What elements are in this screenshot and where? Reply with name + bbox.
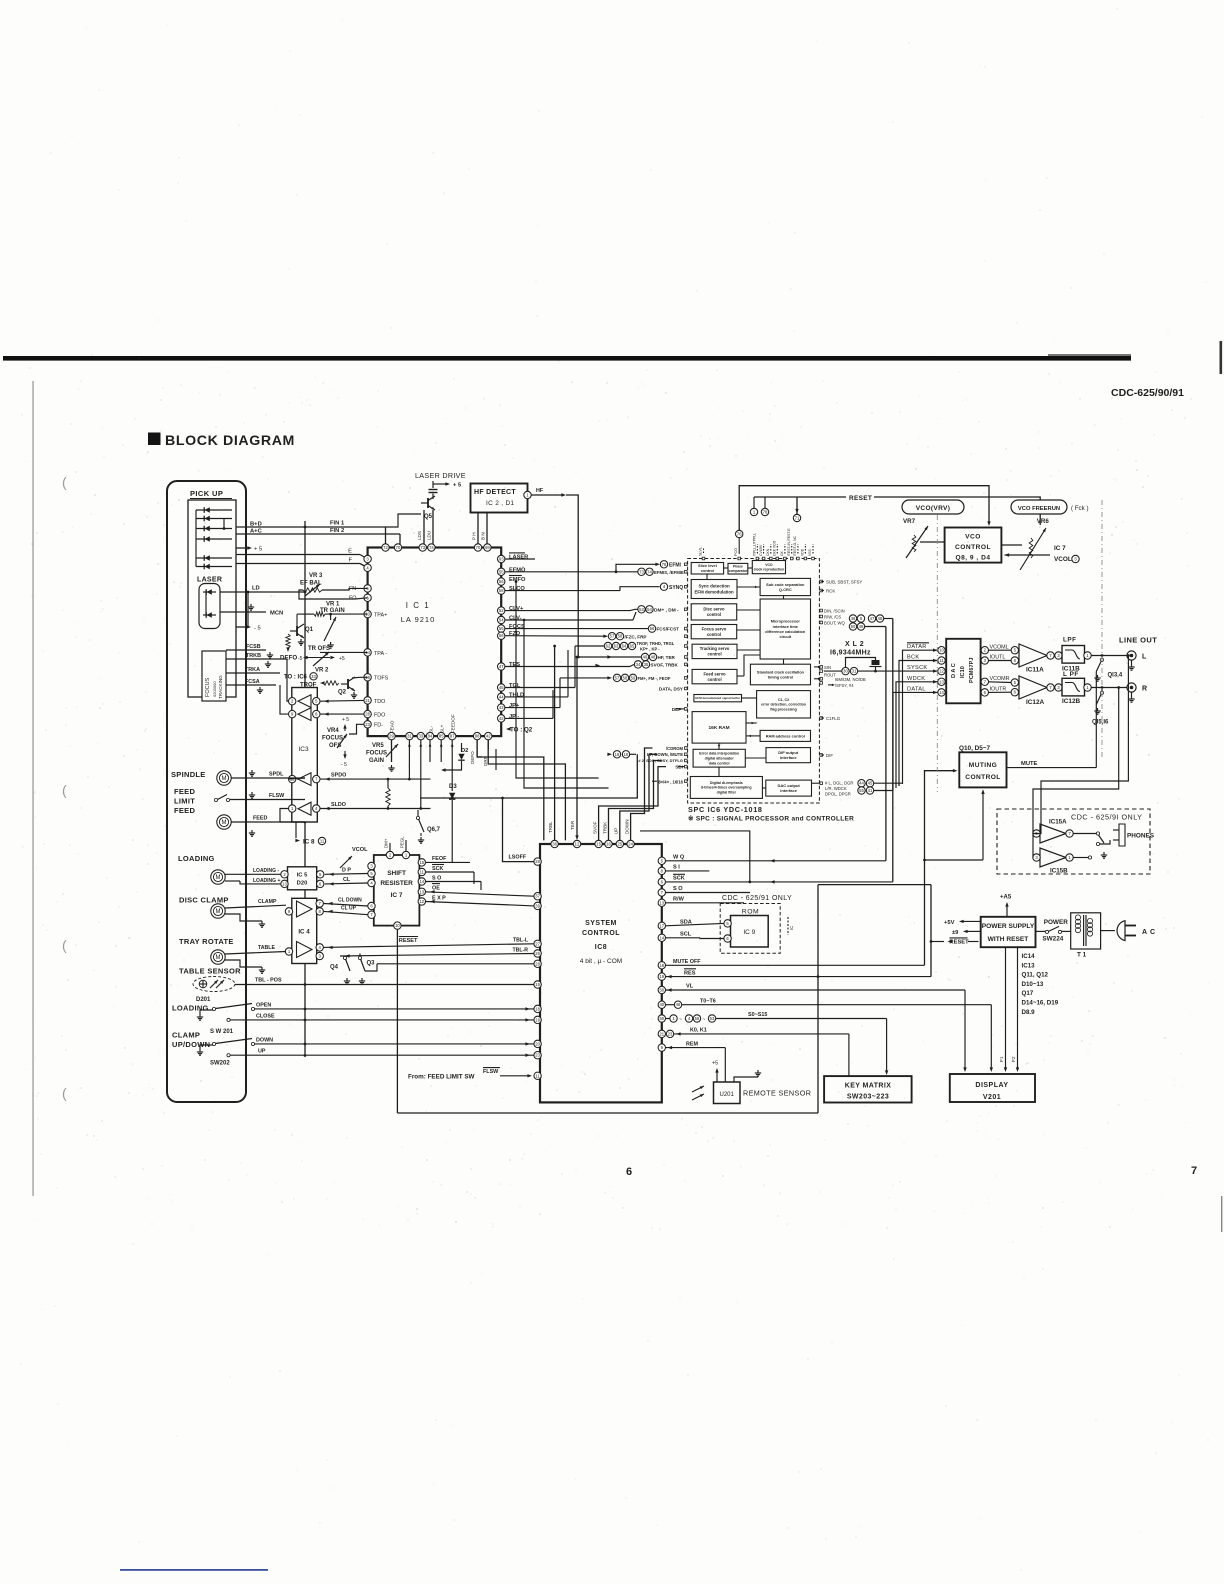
vertical buses right xyxy=(885,627,887,861)
svg-text:D A C: D A C xyxy=(951,663,957,678)
wire HF to SPC xyxy=(531,494,562,496)
SPC sync detection EFM demodulation xyxy=(691,580,737,599)
photodiode array xyxy=(196,509,232,511)
svg-text:DEF: DEF xyxy=(672,707,681,712)
wire LDS xyxy=(423,510,425,544)
phones feed from R line xyxy=(1117,686,1120,689)
svg-text:S O: S O xyxy=(432,875,441,881)
wire ORF drop xyxy=(495,749,497,770)
wire LD xyxy=(220,591,305,593)
SPC standard clock oscillation xyxy=(750,664,810,685)
svg-text:DIF: DIF xyxy=(826,753,833,758)
svg-text:6: 6 xyxy=(626,1166,632,1178)
svg-text:±9: ±9 xyxy=(952,930,959,936)
svg-text:- 5: - 5 xyxy=(254,626,261,632)
svg-text:SPDO: SPDO xyxy=(331,773,346,779)
wire SCK loop xyxy=(640,831,750,882)
svg-text:VR 3: VR 3 xyxy=(309,573,323,579)
svg-text:11: 11 xyxy=(535,1073,540,1078)
svg-text:LOADING -: LOADING - xyxy=(253,868,279,874)
svg-text:I6M/I3M, NO/DB: I6M/I3M, NO/DB xyxy=(835,677,866,682)
VR2 pot xyxy=(313,652,329,666)
svg-text:34: 34 xyxy=(636,662,641,667)
svg-text:SCK: SCK xyxy=(432,866,443,872)
svg-text:IC 7: IC 7 xyxy=(1054,545,1066,552)
SPC sub code separation xyxy=(760,578,810,595)
VCO VRV stadium xyxy=(902,500,964,514)
svg-text:CLAMP: CLAMP xyxy=(172,1031,200,1040)
svg-text:IC15B: IC15B xyxy=(1050,868,1068,875)
svg-text:30: 30 xyxy=(843,669,848,674)
svg-text:digital filter: digital filter xyxy=(717,791,737,795)
svg-text:S0~S15: S0~S15 xyxy=(748,1012,767,1018)
SPC right serial pins xyxy=(820,666,823,669)
svg-text:Phase: Phase xyxy=(733,565,743,569)
svg-text:- 5: - 5 xyxy=(341,762,347,768)
SPC digital de-emphasis filter xyxy=(690,777,762,799)
svg-text:76: 76 xyxy=(737,532,742,537)
svg-text:CL DOWN: CL DOWN xyxy=(338,897,362,903)
IC8 bottom bus xyxy=(397,1112,818,1114)
IC1 bottom pins xyxy=(388,732,395,739)
ROM dashed box xyxy=(720,904,780,954)
svg-text:FCSB: FCSB xyxy=(246,644,261,650)
phones lower contact xyxy=(1088,856,1091,859)
svg-text:+A5: +A5 xyxy=(1000,895,1012,901)
label C1FLG xyxy=(820,717,823,720)
IC5 body xyxy=(288,867,317,890)
svg-text:MCN: MCN xyxy=(270,611,283,617)
disc clamp motor xyxy=(211,904,225,918)
svg-text:TRBK: TRBK xyxy=(602,821,607,834)
LPF R block xyxy=(1054,687,1056,689)
svg-text:84: 84 xyxy=(428,734,433,739)
svg-text:IOUTL: IOUTL xyxy=(990,655,1006,661)
svg-text:IC 7: IC 7 xyxy=(391,892,403,899)
svg-text:GAIN: GAIN xyxy=(369,758,384,764)
svg-text:20: 20 xyxy=(535,1041,540,1046)
svg-text:15: 15 xyxy=(419,860,424,865)
wire A+C xyxy=(236,533,400,535)
IC1 LA9210 body xyxy=(368,548,502,737)
svg-text:/TEST-O, NC: /TEST-O, NC xyxy=(793,535,797,556)
svg-text:FOCUS: FOCUS xyxy=(366,751,387,757)
svg-text:M: M xyxy=(216,955,221,961)
reset network top xyxy=(818,884,931,886)
svg-text:28: 28 xyxy=(365,712,370,717)
svg-text:SVOF: SVOF xyxy=(592,821,597,834)
svg-text:12: 12 xyxy=(419,899,424,904)
svg-text:POWER SUPPLY: POWER SUPPLY xyxy=(982,923,1035,930)
svg-text:P H: P H xyxy=(472,532,477,540)
wire TBL-R xyxy=(340,954,534,957)
svg-text:13: 13 xyxy=(939,679,944,684)
svg-text:17: 17 xyxy=(659,923,664,928)
SPC tracking servo control xyxy=(692,644,737,658)
svg-text:PHONES: PHONES xyxy=(1127,833,1155,840)
op-amp IC12A xyxy=(1011,679,1018,686)
wire PH xyxy=(477,513,479,544)
svg-text:W Q: W Q xyxy=(673,855,685,861)
op-amp IC11A xyxy=(1011,647,1018,654)
svg-text:(: ( xyxy=(62,937,67,953)
svg-text:From: FEED LIMIT SW: From: FEED LIMIT SW xyxy=(408,1074,475,1081)
wire TBL-L xyxy=(322,944,534,948)
svg-text:49: 49 xyxy=(643,655,648,660)
svg-text:28: 28 xyxy=(535,961,540,966)
SPC RAM address control xyxy=(760,730,810,741)
svg-text:63: 63 xyxy=(499,557,504,562)
svg-text:21: 21 xyxy=(659,1031,664,1036)
svg-text:SHIFT: SHIFT xyxy=(387,870,406,877)
svg-text:Tracking servo: Tracking servo xyxy=(700,646,730,651)
svg-text:RESISTER: RESISTER xyxy=(380,880,413,887)
svg-text:ROM: ROM xyxy=(742,909,759,916)
svg-text:44: 44 xyxy=(499,694,504,699)
svg-text:flag processing: flag processing xyxy=(770,707,797,711)
svg-text:12: 12 xyxy=(575,842,580,847)
wire -5 xyxy=(236,626,247,628)
svg-text:31: 31 xyxy=(852,669,857,674)
svg-text:LSOFF: LSOFF xyxy=(509,855,527,861)
wire TROF TRHD TRGL xyxy=(575,645,604,647)
svg-text:TR GAIN: TR GAIN xyxy=(320,608,345,614)
svg-text:TR OFS: TR OFS xyxy=(308,646,330,652)
svg-text:THLD: THLD xyxy=(509,692,524,698)
wire B+D up to Q5 base xyxy=(386,514,422,527)
svg-text:TES: TES xyxy=(509,662,520,668)
svg-text:L/R, WDCK: L/R, WDCK xyxy=(825,786,847,791)
wire E xyxy=(236,554,360,556)
wire bend pin88 down xyxy=(477,740,544,841)
svg-text:CLAMP: CLAMP xyxy=(258,899,277,905)
svg-text:VL: VL xyxy=(686,984,694,990)
svg-text:27: 27 xyxy=(535,941,540,946)
bottom pin risers xyxy=(408,740,410,762)
svg-text:70: 70 xyxy=(396,545,401,550)
wire SCL xyxy=(665,937,700,939)
IC1 top pins xyxy=(382,544,389,551)
svg-text:21: 21 xyxy=(365,698,370,703)
svg-text:(: ( xyxy=(62,782,67,798)
svg-text:WITH RESET: WITH RESET xyxy=(988,936,1029,943)
svg-text:SIN: SIN xyxy=(824,665,831,670)
SPC focus servo control xyxy=(691,625,737,639)
phones feed from L line xyxy=(1127,654,1130,657)
laser drive +5 xyxy=(445,482,450,485)
svg-text:FIN 2: FIN 2 xyxy=(330,528,344,534)
focus tracking coil box xyxy=(202,651,226,701)
svg-text:DIN, /SCIN: DIN, /SCIN xyxy=(824,609,845,614)
svg-text:33: 33 xyxy=(311,674,316,679)
R jack xyxy=(1127,683,1136,692)
IC3 buffer d xyxy=(298,802,311,815)
svg-text:13: 13 xyxy=(419,889,424,894)
svg-text:VR4: VR4 xyxy=(327,728,339,734)
svg-text:VCOL: VCOL xyxy=(352,847,368,853)
svg-text:46: 46 xyxy=(851,616,856,621)
svg-text:13: 13 xyxy=(659,900,664,905)
AC plug xyxy=(1117,921,1125,941)
wire DM+ PEGL stubs xyxy=(389,832,391,843)
svg-text:LASER DRIVE: LASER DRIVE xyxy=(415,471,466,480)
svg-text:SYNQ: SYNQ xyxy=(669,585,683,591)
SPC phase comparator xyxy=(728,563,748,574)
wire JP+ xyxy=(505,707,560,709)
svg-text:L PF: L PF xyxy=(1063,671,1079,678)
VCO FREERUN stadium xyxy=(1011,500,1067,514)
wire +5V out xyxy=(962,920,981,922)
svg-text:24: 24 xyxy=(628,842,633,847)
wire muting bottom feed xyxy=(982,790,984,860)
svg-text:VSS: VSS xyxy=(808,548,812,556)
svg-text:DM+: DM+ xyxy=(384,838,389,848)
svg-text:Digital di-emphasis: Digital di-emphasis xyxy=(710,781,743,785)
HF detect block IC2 D1 xyxy=(471,484,528,513)
svg-text:BOUT, WQ: BOUT, WQ xyxy=(824,621,845,626)
svg-text:16: 16 xyxy=(624,752,629,757)
svg-text:59: 59 xyxy=(631,675,636,680)
wire TRKB xyxy=(226,658,287,660)
svg-text:BCK: BCK xyxy=(907,655,919,661)
SPC C1 C2 error detection xyxy=(757,691,811,718)
switch Q6 7 xyxy=(416,816,419,819)
svg-text:SPDL: SPDL xyxy=(269,772,284,778)
svg-text:FEED: FEED xyxy=(174,806,195,815)
svg-text:53: 53 xyxy=(639,607,644,612)
wire SCK out xyxy=(425,871,474,873)
svg-text:( Fck ): ( Fck ) xyxy=(1071,505,1089,512)
svg-text:EFM demodulated signal buffer: EFM demodulated signal buffer xyxy=(695,696,741,700)
svg-text:TO : Q2: TO : Q2 xyxy=(510,727,533,734)
svg-text:SYSCK: SYSCK xyxy=(907,665,927,671)
svg-text:SL+: SL+ xyxy=(440,724,445,733)
wire JP- xyxy=(505,717,553,719)
IC7 top pins xyxy=(386,851,393,858)
svg-text:TBL-L: TBL-L xyxy=(513,938,529,944)
wire LASER row stub xyxy=(505,558,535,560)
svg-text:Q3: Q3 xyxy=(367,961,376,967)
svg-text:UP: UP xyxy=(258,1049,266,1055)
svg-text:L: L xyxy=(1142,654,1147,661)
wire FDO row xyxy=(320,713,364,715)
wire RESET net down xyxy=(396,929,398,1113)
svg-text:RESET: RESET xyxy=(849,495,872,502)
IC8 right pins xyxy=(658,857,665,864)
svg-text:FCS/FCST: FCS/FCST xyxy=(657,627,680,632)
IC3 body xyxy=(292,688,318,823)
svg-text:data control: data control xyxy=(709,761,730,765)
svg-text:TGL: TGL xyxy=(509,683,521,689)
svg-text:IC12A: IC12A xyxy=(1026,699,1044,706)
svg-text:FEOF: FEOF xyxy=(432,856,447,862)
heading BLOCK DIAGRAM xyxy=(148,433,161,446)
key matrix block xyxy=(824,1076,912,1102)
left bus vertical xyxy=(304,521,306,1056)
svg-text:19: 19 xyxy=(535,1017,540,1022)
pickup photodiode array box xyxy=(188,500,236,697)
svg-text:control: control xyxy=(707,652,721,657)
svg-text:CONTROL: CONTROL xyxy=(965,774,1000,781)
svg-text:D10~13: D10~13 xyxy=(1022,981,1044,988)
wire SO out xyxy=(425,881,481,883)
svg-text:IC13: IC13 xyxy=(1022,962,1036,969)
right margin tick bottom xyxy=(1221,1196,1222,1232)
svg-text:36: 36 xyxy=(552,842,557,847)
svg-text:FD-: FD- xyxy=(374,723,383,729)
svg-text:VR 2: VR 2 xyxy=(315,668,329,674)
svg-text:50: 50 xyxy=(851,624,856,629)
SPC feed servo control xyxy=(692,669,737,683)
svg-text:+5: +5 xyxy=(712,1061,718,1067)
wire OE xyxy=(425,892,534,896)
wire FCS FCST xyxy=(505,628,648,630)
op-amp IC15B xyxy=(1040,848,1066,867)
wire UP DOWN MUTE feed xyxy=(420,754,637,798)
wire RES xyxy=(665,976,931,978)
svg-text:23: 23 xyxy=(365,722,370,727)
svg-text:55: 55 xyxy=(499,569,504,574)
IC1 right pins xyxy=(498,555,505,562)
VCO control block xyxy=(945,528,1002,563)
wire B+D xyxy=(236,526,386,528)
svg-text:+ 5: + 5 xyxy=(342,717,349,723)
svg-text:47: 47 xyxy=(870,616,875,621)
wire CL xyxy=(325,882,368,885)
svg-text:58: 58 xyxy=(499,588,504,593)
svg-text:X L 2: X L 2 xyxy=(845,641,864,648)
svg-text:Standard clock oscillation: Standard clock oscillation xyxy=(757,670,805,674)
svg-text:11: 11 xyxy=(939,658,944,663)
svg-text:LASER: LASER xyxy=(509,555,528,561)
IC9 body xyxy=(731,916,769,948)
wire SDA xyxy=(665,923,724,925)
wire EXP xyxy=(425,902,534,906)
SPC microprocessor interface block xyxy=(760,599,810,659)
svg-text:33: 33 xyxy=(418,734,423,739)
svg-text:CONTROL: CONTROL xyxy=(955,544,991,551)
svg-text:LINE OUT: LINE OUT xyxy=(1119,636,1157,645)
svg-text:DATAL: DATAL xyxy=(907,686,926,692)
svg-text:69: 69 xyxy=(485,545,490,550)
svg-text:57: 57 xyxy=(615,675,620,680)
svg-text:error detection, correction: error detection, correction xyxy=(761,703,806,707)
svg-text:B+D: B+D xyxy=(250,522,262,528)
wire CL DOWN xyxy=(324,904,368,907)
transistor Q2 xyxy=(347,679,349,689)
svg-text:+ 5: + 5 xyxy=(453,483,462,489)
wire TRKB to IC3 in xyxy=(287,659,289,701)
svg-text:78: 78 xyxy=(662,562,667,567)
svg-text:CLV-: CLV- xyxy=(509,616,522,622)
svg-text:CVLRV: CVLRV xyxy=(759,544,763,556)
svg-text:IC 8: IC 8 xyxy=(303,839,315,846)
svg-text:55: 55 xyxy=(499,626,504,631)
svg-text:TRBL: TRBL xyxy=(548,821,553,833)
svg-text:41: 41 xyxy=(868,788,873,793)
svg-text:31: 31 xyxy=(407,734,412,739)
DAC data wires xyxy=(903,650,938,784)
svg-text:V201: V201 xyxy=(983,1094,1001,1101)
page top rule xyxy=(3,356,1131,361)
SPC slice level control xyxy=(691,563,723,575)
svg-text:FOCUS: FOCUS xyxy=(205,677,211,697)
svg-text:Q10, D5~7: Q10, D5~7 xyxy=(959,745,991,752)
wire FEOF-FEGL riser xyxy=(405,840,407,851)
svg-text:I C 1: I C 1 xyxy=(406,601,430,610)
wire FD- bend xyxy=(349,724,364,734)
svg-text:# L, DGL, DGR: # L, DGL, DGR xyxy=(825,781,853,786)
svg-text:14: 14 xyxy=(659,935,664,940)
wire FZC FRP xyxy=(505,635,604,638)
IC8 system control body xyxy=(540,844,662,1102)
svg-text:Feed servo: Feed servo xyxy=(703,671,726,676)
svg-text:control: control xyxy=(707,632,721,637)
wire THLD xyxy=(505,696,568,698)
svg-text:E: E xyxy=(348,549,352,555)
wire SCK long xyxy=(665,881,892,883)
svg-text:※ SPC : SIGNAL PROCESSOR and C: ※ SPC : SIGNAL PROCESSOR and CONTROLLER xyxy=(688,815,854,823)
svg-text:M: M xyxy=(222,776,227,782)
svg-text:SCL: SCL xyxy=(680,932,692,938)
svg-text:FDO: FDO xyxy=(374,713,385,719)
SPC DAC output interface xyxy=(766,780,812,796)
svg-text:Q17: Q17 xyxy=(1022,990,1034,997)
svg-text:LOADING: LOADING xyxy=(178,854,215,863)
svg-text:IC12B: IC12B xyxy=(1062,698,1080,705)
svg-text:C1, C2: C1, C2 xyxy=(778,698,789,702)
svg-text:OPEN: OPEN xyxy=(256,1002,271,1008)
svg-text:RAM address control: RAM address control xyxy=(766,733,805,738)
svg-text:25: 25 xyxy=(617,842,622,847)
svg-text:QI3,4: QI3,4 xyxy=(1108,673,1123,679)
IC8 extra pin K xyxy=(666,1030,673,1037)
svg-text:RESET: RESET xyxy=(399,938,418,944)
svg-text:B N: B N xyxy=(481,532,486,540)
IC3 buffer c xyxy=(298,773,311,786)
svg-text:PCO: PCO xyxy=(734,548,738,556)
wire EFMO to SPC xyxy=(505,571,638,573)
svg-text:MUTING: MUTING xyxy=(969,762,997,769)
svg-text:FM+, FM -, FEOF: FM+, FM -, FEOF xyxy=(638,676,671,681)
wire K0 K1 xyxy=(674,1033,849,1035)
svg-text:Q4: Q4 xyxy=(330,965,339,971)
loading motor xyxy=(211,870,225,884)
svg-text:digital attenuator: digital attenuator xyxy=(705,756,735,760)
svg-text:50: 50 xyxy=(659,1016,664,1021)
shift register IC7 body xyxy=(374,855,420,926)
svg-text:Disc servo: Disc servo xyxy=(703,607,725,612)
pickup internal bus xyxy=(195,510,197,567)
wire FM+ FM- FEOF xyxy=(560,677,609,679)
svg-text:CKK VCO: CKK VCO xyxy=(773,540,777,556)
svg-text:D2: D2 xyxy=(461,748,468,754)
phones contacts xyxy=(1096,832,1099,835)
wire power to display left xyxy=(996,947,998,955)
svg-text:LA 9210: LA 9210 xyxy=(401,615,436,624)
IC10 right pins xyxy=(981,647,988,654)
svg-text:VR7: VR7 xyxy=(903,518,916,525)
svg-text:DEFO: DEFO xyxy=(280,655,297,662)
pin 1 HF xyxy=(524,491,531,498)
svg-text:M: M xyxy=(222,820,227,826)
svg-text:12: 12 xyxy=(939,669,944,674)
svg-text:+ 5: + 5 xyxy=(254,547,262,553)
svg-text:QI5,I6: QI5,I6 xyxy=(1092,720,1109,726)
svg-text:Q-CRC: Q-CRC xyxy=(779,587,792,592)
svg-text:73: 73 xyxy=(420,545,425,550)
svg-text:WDCK: WDCK xyxy=(907,676,925,682)
